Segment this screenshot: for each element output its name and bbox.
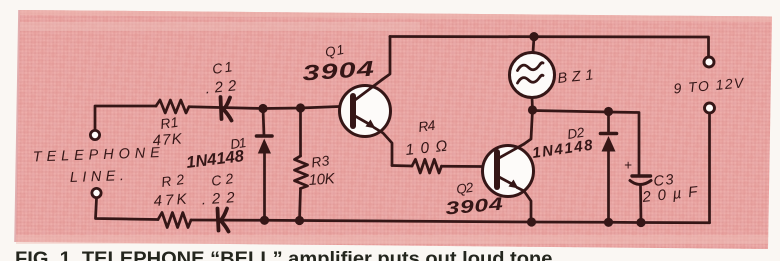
svg-text:FIG. 1. TELEPHONE “BELL” ampl: FIG. 1. TELEPHONE “BELL” amplifier puts … [15, 248, 558, 261]
svg-text:47K: 47K [153, 191, 188, 210]
capacitor C1 [221, 97, 232, 121]
node: C3 bottom junction [636, 218, 645, 227]
node: buzzer top junction [529, 32, 538, 41]
node: Q2 emitter junction on bottom rail [527, 217, 536, 226]
capacitor C3 [630, 176, 651, 223]
resistor R2 [158, 213, 191, 228]
svg-text:R3: R3 [310, 152, 330, 170]
svg-text:+: + [624, 158, 632, 173]
svg-text:10K: 10K [308, 170, 336, 189]
wire: top-left input rail [95, 106, 156, 130]
terminal: supply top [704, 57, 714, 67]
svg-text:R1: R1 [159, 114, 179, 132]
node: D1 bottom junction [260, 216, 269, 225]
wire: bottom rail R2 to right corner [191, 220, 710, 223]
node: D2 top junction [604, 107, 613, 116]
wire: mid rail to C3 [533, 111, 640, 177]
node: buzzer bottom junction [528, 105, 537, 114]
wire: Q2 collector up to buzzer node [524, 110, 533, 144]
capacitor C2 [218, 209, 229, 232]
wire: top rail [390, 37, 709, 57]
resistor R3 [295, 108, 308, 221]
resistor R1 [156, 100, 189, 113]
node: R3 top junction [296, 103, 305, 112]
wire: right edge down from lower terminal [708, 114, 711, 223]
terminal: telephone line bottom [92, 188, 101, 197]
svg-text:Q2: Q2 [455, 180, 474, 197]
transistor Q1 [340, 79, 393, 166]
terminal: telephone line top [90, 130, 99, 139]
wire: R4 to Q2 base [442, 165, 483, 168]
wire: Q1 collector to top rail [383, 37, 390, 80]
diode D1 [257, 109, 273, 221]
node: D2 bottom junction [604, 218, 613, 227]
resistor R4 [412, 159, 442, 173]
node: D1 top junction [258, 104, 267, 113]
terminal: supply bottom [705, 103, 715, 113]
buzzer BZ1 [510, 37, 555, 110]
wire: bottom-left input rail [96, 199, 159, 220]
diode D2 [601, 112, 617, 223]
wire: rail R1 to Q1 base [189, 107, 340, 109]
transistor Q2 [483, 144, 534, 222]
svg-text:3904: 3904 [302, 56, 376, 85]
node: R3 bottom junction [295, 216, 304, 225]
svg-text:R4: R4 [417, 117, 436, 135]
wire: emitter line to R4 [392, 164, 412, 167]
labels (handwritten style) [33, 42, 746, 219]
